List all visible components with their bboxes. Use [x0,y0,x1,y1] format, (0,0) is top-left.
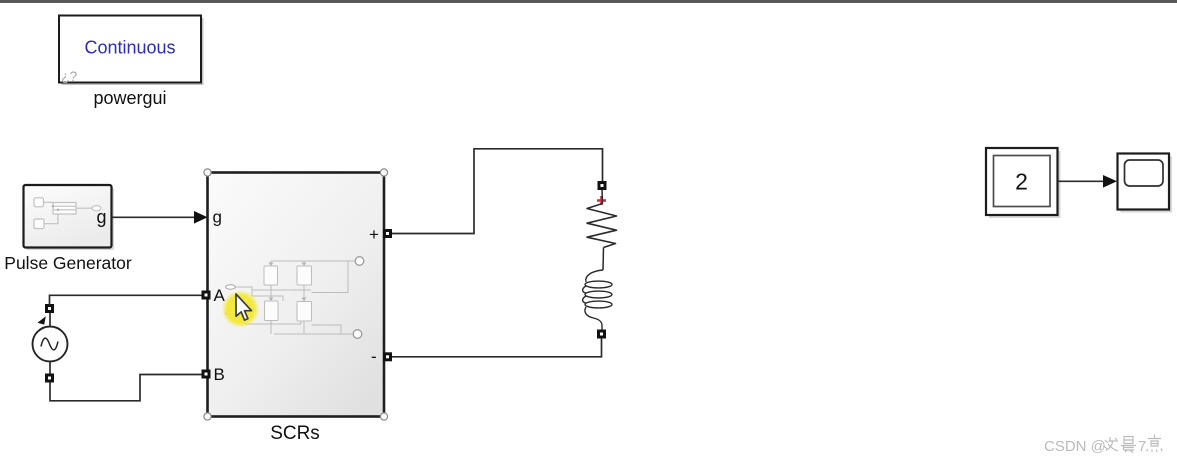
subsystem Pulse Generator [24,185,115,250]
SCRs corner selection handles [204,169,388,420]
SCRs port square A [202,291,211,300]
powergui block [59,16,204,86]
svg-text:powergui: powergui [93,88,166,108]
constant block value 2 [986,148,1061,218]
subsystem SCRs (selected) [208,173,385,417]
svg-text:¿?: ¿? [61,68,78,84]
wire: RLC branch bottom to SCRs - [392,339,602,357]
svg-text:g: g [97,207,107,227]
svg-text:Continuous: Continuous [84,38,175,58]
series RLC branch (R + L) [583,181,617,339]
SCRs port square B [202,370,211,379]
svg-text:SCRs: SCRs [270,423,320,444]
toolbar bottom edge bar [0,0,1177,3]
svg-text:7: 7 [1138,438,1146,455]
svg-text:B: B [214,365,225,384]
watermark CSDN [1044,435,1162,456]
wire: V1 + terminal to SCRs port A [50,295,202,305]
SCRs port square + [383,229,392,238]
wire: V1 - terminal to SCRs port B [50,375,202,401]
svg-text:Pulse Generator: Pulse Generator [4,253,132,273]
wire: SCRs + to RLC branch top [392,149,603,234]
mouse pointer [236,294,252,320]
svg-text:-: - [371,347,377,366]
svg-text:+: + [369,225,379,244]
SCRs port square - [383,352,392,361]
svg-text:g: g [213,208,222,227]
resistor zigzag [587,204,617,248]
AC voltage source V1 [33,304,68,383]
inductor coil [583,270,612,330]
svg-text:2: 2 [1015,169,1028,195]
red plus polarity mark [597,196,606,205]
wire g: Pulse Generator to SCRs [112,211,208,224]
SCRs internal bridge diagram (faint) [226,257,364,339]
wire: constant to scope [1058,175,1118,188]
cursor highlight (yellow) [222,290,260,328]
svg-text:CSDN @: CSDN @ [1044,438,1106,455]
scope block [1118,154,1173,213]
